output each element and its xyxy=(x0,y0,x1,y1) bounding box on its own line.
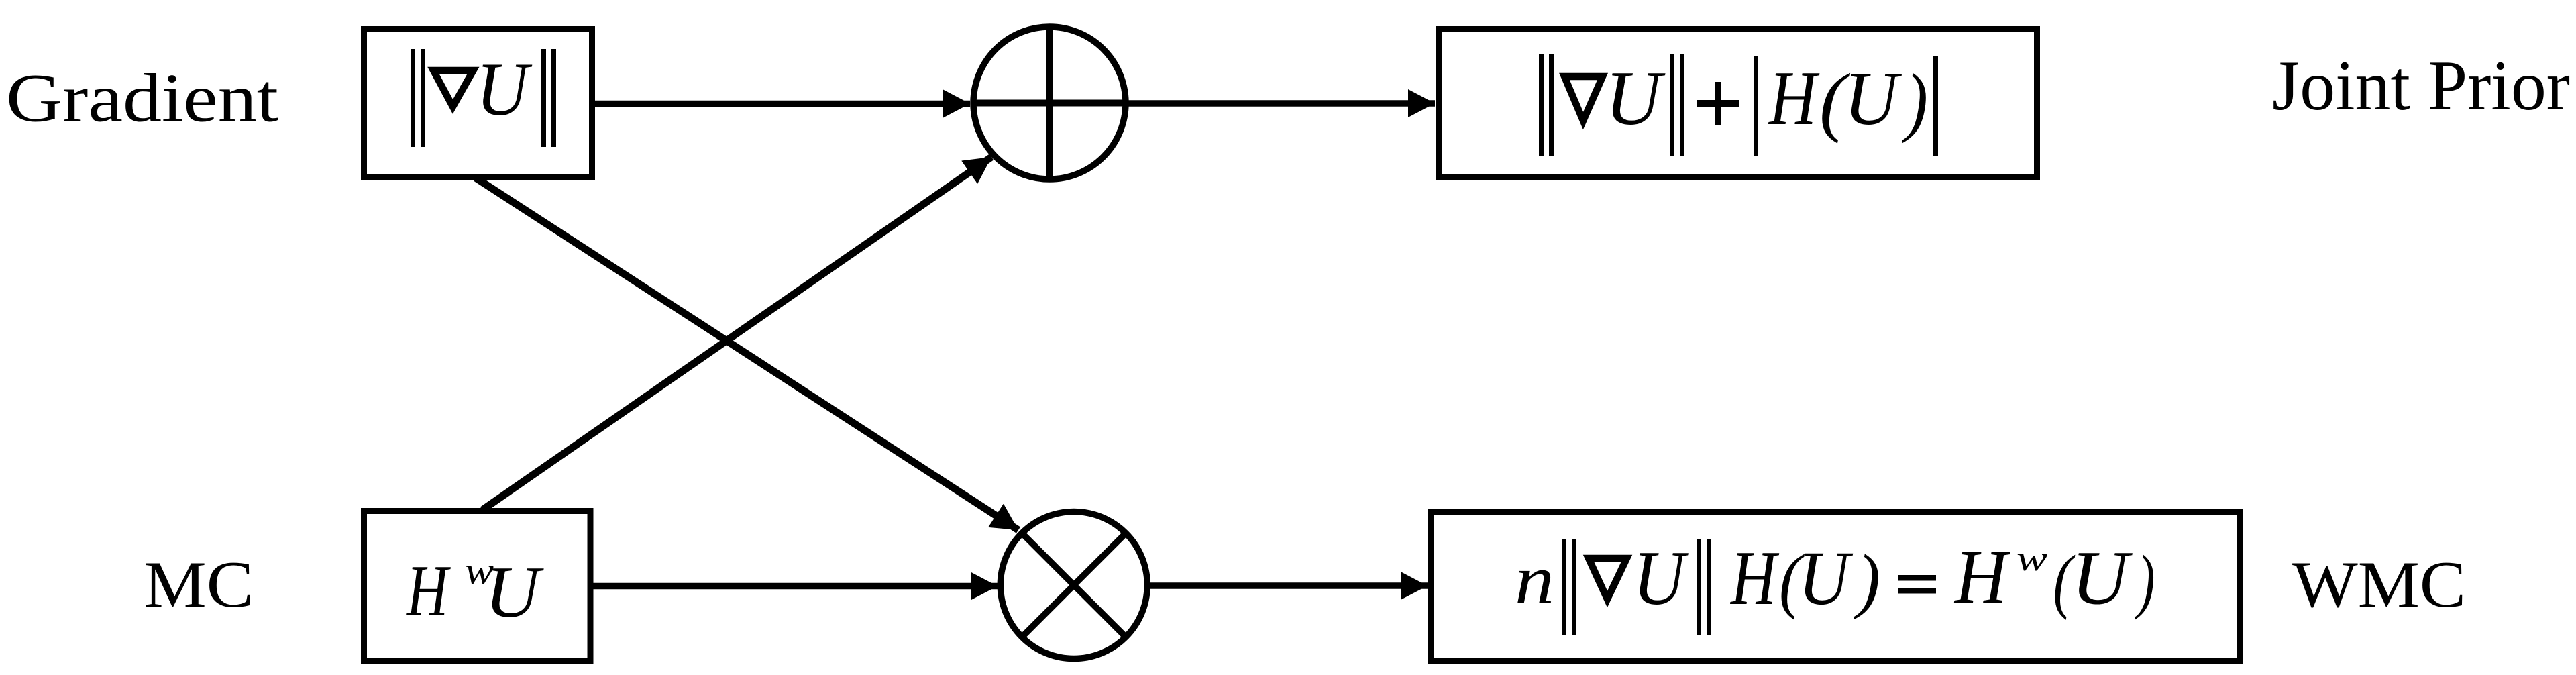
multiplier X stroke 1 xyxy=(1021,533,1126,638)
svg-text:WMC: WMC xyxy=(2292,548,2466,621)
svg-text:U: U xyxy=(1605,56,1666,142)
svg-text:H: H xyxy=(405,550,451,631)
svg-text:): ) xyxy=(1902,58,1928,144)
wire MC box to multiplier xyxy=(593,583,998,590)
svg-text:H: H xyxy=(1729,535,1779,621)
svg-text:U: U xyxy=(1799,535,1854,621)
formula n||nabla-U||H(U) = H^w(U) in WMC box xyxy=(1515,534,2155,635)
svg-text:MC: MC xyxy=(144,548,254,621)
adder plus horizontal xyxy=(971,100,1128,107)
wire gradient box diagonal to multiplier xyxy=(476,178,1018,530)
box joint prior xyxy=(1439,30,2037,178)
multiplier circle xyxy=(1000,512,1147,659)
svg-text:U: U xyxy=(1844,57,1902,141)
formula ||nabla-U|| + |H(U)| in joint prior box xyxy=(1539,54,1938,156)
svg-text:U: U xyxy=(476,48,533,132)
svg-text:H: H xyxy=(1953,534,2010,619)
wire MC box diagonal to adder xyxy=(482,157,991,510)
formula ||nabla-U|| in gradient box xyxy=(411,48,556,147)
wire adder to joint prior box xyxy=(1128,100,1435,107)
svg-text:U: U xyxy=(485,552,545,633)
formula H^w U in MC box xyxy=(405,549,544,633)
adder plus vertical xyxy=(1046,25,1053,182)
svg-text:H: H xyxy=(1768,56,1819,142)
adder circle xyxy=(973,27,1126,179)
svg-text:U: U xyxy=(2072,535,2133,621)
svg-text:U: U xyxy=(1633,535,1689,621)
svg-text:n: n xyxy=(1515,541,1554,619)
box WMC xyxy=(1431,512,2241,661)
wire multiplier to WMC box xyxy=(1150,582,1428,589)
svg-text:w: w xyxy=(2017,539,2047,578)
svg-text:): ) xyxy=(2135,541,2155,621)
svg-text:): ) xyxy=(1853,541,1880,621)
svg-text:Gradient: Gradient xyxy=(6,60,278,137)
wire gradient box to adder xyxy=(595,101,970,107)
svg-text:Joint Prior: Joint Prior xyxy=(2272,46,2570,125)
box MC input xyxy=(364,511,591,662)
multiplier X stroke 2 xyxy=(1021,533,1126,638)
box gradient input xyxy=(364,30,592,178)
